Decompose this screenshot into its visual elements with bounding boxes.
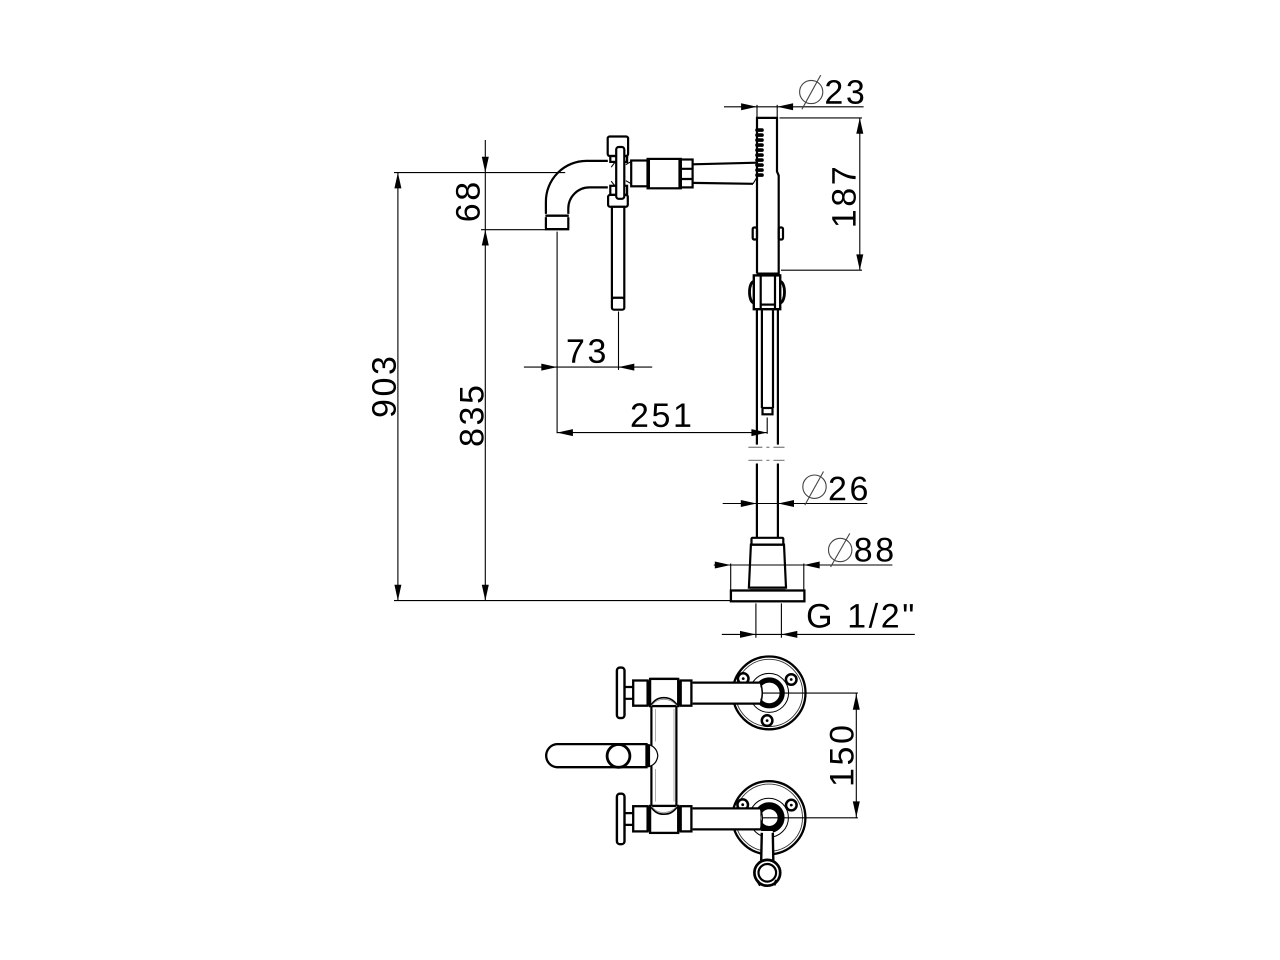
dimension 835 bbox=[460, 230, 489, 601]
extension line fixture top bbox=[394, 172, 565, 174]
cross handle slab (side view) bbox=[616, 147, 624, 199]
top flange centerline / 150 extension bbox=[762, 692, 858, 694]
spout elbow outer contour bbox=[546, 161, 608, 214]
dimension 187 bbox=[780, 118, 864, 270]
bottom wall flange escutcheon bbox=[732, 781, 805, 854]
shower wand inside riser bbox=[762, 309, 773, 414]
bottom valve row bbox=[617, 794, 692, 845]
base cone bbox=[749, 545, 786, 588]
base flange plate bbox=[731, 591, 805, 602]
bottom supply pipe bbox=[693, 808, 763, 829]
dimension 150 bbox=[830, 693, 860, 818]
hand shower head side nuts bbox=[749, 282, 784, 303]
riser break lines bbox=[748, 447, 784, 460]
shower hook arm bbox=[761, 831, 773, 860]
dimension diameter 88 bbox=[714, 533, 893, 590]
dimension 73 bbox=[524, 339, 652, 371]
dimension 68 bbox=[456, 140, 489, 230]
hand shower side clips bbox=[753, 228, 783, 240]
mixer body bottom neck bbox=[610, 186, 627, 195]
hand shower head block bbox=[754, 275, 780, 309]
shower hook ring bbox=[754, 860, 780, 886]
dimension G 1/2 bbox=[722, 603, 915, 638]
riser tube below break bbox=[757, 464, 778, 538]
spout aerator joint bbox=[545, 214, 568, 216]
holder arm tube bbox=[693, 163, 758, 184]
hand shower grip ribs bbox=[755, 128, 764, 177]
bottom socket black ring bbox=[757, 806, 781, 830]
connector ring piece bbox=[631, 161, 647, 187]
top flange screws bbox=[738, 673, 797, 726]
mixer body top neck bbox=[610, 156, 627, 162]
mixer body bottom cap bbox=[608, 195, 628, 207]
spout elbow inner contour bbox=[568, 187, 608, 214]
spout outlet piece bbox=[545, 217, 569, 229]
hidden-edge nick marks at handle slab bbox=[611, 161, 630, 186]
lever centerline bbox=[618, 312, 620, 370]
riser tube below head bbox=[757, 309, 778, 444]
mixer lever (front) bbox=[546, 744, 658, 767]
dimension diameter 26 bbox=[723, 472, 868, 508]
bottom flange centerline / 150 extension bbox=[762, 817, 858, 819]
dimension 903 bbox=[372, 173, 401, 601]
dimension diameter 23 bbox=[724, 75, 864, 118]
connector main cylinder bbox=[648, 159, 681, 188]
mixer body top cap bbox=[608, 137, 628, 157]
hand shower handle bbox=[757, 118, 779, 274]
extension line floor level bbox=[394, 600, 731, 602]
wand centerline bbox=[766, 418, 768, 434]
extension line spout outlet bbox=[481, 229, 546, 231]
spout centerline bbox=[556, 232, 558, 434]
top wall flange escutcheon bbox=[733, 657, 806, 730]
base collar bbox=[752, 538, 784, 545]
dimension 251 bbox=[557, 403, 767, 436]
mixer column body (front) bbox=[651, 679, 676, 833]
top socket black ring bbox=[756, 680, 782, 706]
bottom flange screws bbox=[737, 799, 796, 810]
base cone shadow line bbox=[750, 588, 786, 590]
top valve row bbox=[617, 668, 692, 719]
connector banded nut bbox=[681, 160, 693, 188]
lever handle rod (side view) bbox=[612, 207, 624, 310]
top supply pipe bbox=[693, 683, 763, 704]
